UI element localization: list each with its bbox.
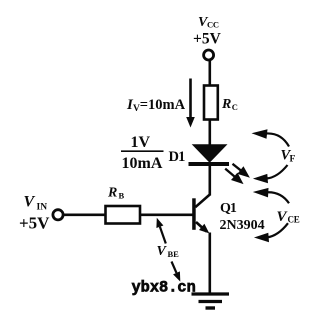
svg-text:2N3904: 2N3904 — [220, 218, 265, 233]
svg-text:V: V — [24, 194, 36, 211]
svg-text:F: F — [290, 155, 296, 165]
svg-text:CC: CC — [207, 20, 219, 30]
svg-text:BE: BE — [168, 249, 180, 259]
svg-text:C: C — [232, 102, 238, 112]
svg-text:CE: CE — [288, 215, 300, 225]
svg-text:R: R — [107, 186, 117, 201]
svg-text:+5V: +5V — [19, 214, 50, 233]
svg-text:=10mA: =10mA — [140, 97, 186, 113]
svg-text:R: R — [221, 97, 231, 112]
svg-text:ybx8.cn: ybx8.cn — [132, 279, 196, 297]
svg-text:10mA: 10mA — [122, 155, 163, 172]
svg-text:IN: IN — [37, 203, 48, 213]
svg-text:B: B — [119, 190, 125, 200]
svg-text:1V: 1V — [131, 134, 151, 151]
svg-text:+5V: +5V — [193, 31, 222, 48]
svg-text:D1: D1 — [169, 149, 186, 165]
svg-text:Q1: Q1 — [220, 201, 237, 216]
